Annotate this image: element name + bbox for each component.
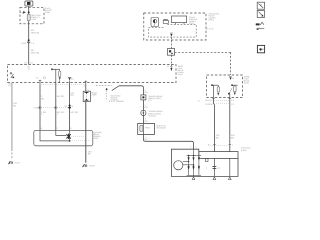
wire through junction block to G103: [86, 85, 92, 163]
regulator notch: [205, 158, 208, 161]
junction and fuse F5: [51, 69, 61, 83]
svg-text:2RD(+B): 2RD(+B): [31, 51, 40, 54]
wire labels above generator pins: [216, 134, 236, 139]
junction box X113: [168, 49, 175, 56]
wire label: [144, 104, 148, 109]
pin at x85.8 on fuse block bottom: [84, 81, 87, 88]
label right of junction block: [94, 131, 103, 140]
label right of module M1: [189, 16, 197, 25]
dashed wire from module down: [170, 37, 172, 48]
connector X134: [21, 39, 35, 45]
relay K1: [151, 18, 159, 27]
icon pan tool: [256, 22, 265, 30]
BEC fuse branch left: [211, 84, 219, 97]
wire label: [145, 118, 149, 123]
splice X crimp: [66, 134, 70, 139]
wire label below PM2: [145, 136, 149, 141]
svg-text:RD: RD: [145, 120, 149, 123]
svg-text:AUX B+: AUX B+: [205, 99, 214, 102]
fuse F1 mega: [27, 14, 30, 21]
svg-text:Module: Module: [117, 100, 125, 103]
dotted internal bus below fuse block: [41, 84, 86, 86]
svg-text:Generator: Generator: [156, 127, 166, 130]
wire splice to ground splice: [142, 100, 144, 110]
svg-text:PM2: PM2: [145, 126, 150, 129]
connector X1 generator: [208, 143, 234, 151]
icon key: [257, 45, 264, 52]
connector row X108: [33, 105, 73, 110]
svg-text:RD: RD: [41, 97, 45, 100]
svg-text:X134: X134: [21, 42, 27, 45]
splice box SP205: [141, 95, 146, 100]
pin 86 with arrow: [170, 33, 175, 37]
svg-text:Body: Body: [244, 82, 250, 85]
BEC relay branch right: [228, 84, 238, 97]
svg-text:Ground: Ground: [148, 114, 156, 117]
dotted links inside junction block: [72, 136, 90, 140]
wire 3 from B+ stud: [69, 83, 71, 131]
chassis terminal triangle right: [228, 177, 231, 180]
dashed wire junction to fuse block: [170, 55, 172, 64]
label right of dashed module box: IPC: [206, 12, 219, 30]
label right of fuse block: [178, 65, 185, 76]
dashed box: underhood fuse block: [8, 65, 177, 83]
contact block: [163, 19, 168, 23]
pin labels generator L terminal: [190, 145, 197, 148]
pin at x40 on fuse block bottom: [36, 77, 46, 85]
wire L control down: [229, 104, 231, 143]
svg-text:Fuse: Fuse: [45, 11, 51, 14]
svg-text:LOW B+: LOW B+: [205, 103, 214, 106]
wire label above splice: [144, 89, 148, 94]
wire label below X134: [31, 49, 40, 54]
svg-text:(LR4): (LR4): [241, 149, 247, 152]
fuse box mega: [83, 88, 97, 101]
svg-text:RD: RD: [216, 136, 220, 139]
wire labels below X108: [41, 111, 78, 116]
junction block internal wires: [40, 130, 70, 141]
pin labels above junction block: [41, 127, 73, 130]
chassis terminal triangle left: [192, 177, 195, 180]
diode bridge: [183, 149, 201, 175]
wire battery B+: [28, 6, 30, 65]
wire label 2RD: [31, 29, 40, 34]
wire PM2 to generator L: [143, 134, 193, 149]
regulator internal wires: [213, 158, 215, 176]
node splice S101: [28, 11, 30, 13]
voltage regulator: [199, 152, 238, 159]
B+ stud terminal: [68, 77, 74, 82]
pin labels at fuse block entry: [24, 61, 34, 70]
battery A1: [25, 1, 33, 6]
wire from switch to splice chain: [119, 86, 143, 95]
wire B+ sense down: [213, 104, 215, 143]
capacitor C1: [206, 167, 221, 170]
dashed box: battery junction: [20, 7, 44, 24]
gray wire from breaker to G102: [12, 83, 18, 160]
dashed box: power info module: [144, 13, 206, 40]
pin X50A right side with arrow: [167, 65, 173, 71]
svg-text:642 RD: 642 RD: [57, 95, 65, 98]
svg-text:(PIC): (PIC): [189, 22, 194, 25]
wire labels above X108: [41, 92, 75, 100]
dashed branch wire to body control: [175, 52, 231, 75]
wire to PM2 fuse: [142, 116, 144, 124]
icon zoom-out: [257, 2, 264, 9]
svg-text:(2 of 2): (2 of 2): [206, 27, 213, 30]
fusible link arrow: [20, 11, 26, 14]
BEC bottom pins and dotted connector rows: [205, 98, 235, 106]
svg-text:(IPC): (IPC): [209, 18, 214, 21]
generator G1 case: [171, 149, 238, 176]
svg-text:Distr: Distr: [94, 137, 99, 140]
svg-text:X108: X108: [33, 107, 39, 110]
label right of switch: [111, 95, 125, 104]
pin 30 on BEC top: [229, 76, 235, 80]
ground G102: [8, 161, 21, 164]
rotor circle: [174, 161, 183, 170]
dashed box: body electrical center: [207, 75, 243, 98]
svg-text:hood: hood: [178, 73, 184, 76]
svg-text:RD: RD: [71, 94, 75, 97]
svg-text:250A: 250A: [91, 94, 97, 97]
icon zoom-in: [257, 10, 264, 17]
svg-text:1 BA: 1 BA: [31, 18, 36, 21]
splice ring SP206: [141, 110, 146, 115]
chassis terminal triangle mid: [213, 177, 216, 180]
inner dashed box of module: [149, 24, 197, 37]
label inside battery junction box: [31, 14, 41, 21]
label right of splice SP205: [148, 95, 163, 102]
label right of splice SP206: [148, 110, 163, 117]
svg-text:G103: G103: [89, 165, 95, 168]
label right of BEC: [244, 76, 250, 85]
svg-text:BN: BN: [231, 136, 234, 139]
switch S1 ignition: [96, 86, 119, 102]
wire 2 from fuse block: [55, 83, 57, 131]
label right of battery box: [45, 7, 52, 14]
diode bus to chassis: [193, 175, 195, 176]
label right of PM2: [156, 125, 166, 130]
junction block box: [34, 130, 93, 145]
module M1 rectangle: [172, 16, 187, 24]
generator label: [241, 147, 251, 152]
svg-text:642 RD: 642 RD: [71, 111, 79, 114]
svg-text:2RD(+B): 2RD(+B): [31, 31, 40, 34]
wire 1 from fuse block: [39, 85, 41, 131]
svg-text:RD: RD: [145, 138, 149, 141]
breaker CB1 in fuse block: [10, 73, 14, 79]
ground G103: [82, 164, 95, 167]
svg-text:G102: G102: [15, 162, 21, 165]
svg-text:RD: RD: [144, 106, 148, 109]
svg-text:RD: RD: [144, 91, 148, 94]
fuse box PM2: [138, 123, 155, 134]
label below breaker: [8, 83, 12, 88]
